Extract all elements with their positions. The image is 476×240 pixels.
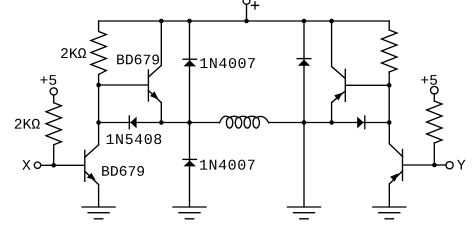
- svg-text:1N4007: 1N4007: [199, 56, 256, 73]
- diode D3 1N4007 unlabeled: [297, 21, 311, 123]
- svg-text:Y: Y: [457, 159, 466, 175]
- diode D4 1N5408: [129, 116, 136, 129]
- junction mid-T1e: [159, 120, 164, 125]
- supply terminal circle: [243, 0, 250, 4]
- svg-text:+5: +5: [420, 74, 438, 90]
- node Y terminal: [434, 164, 446, 166]
- svg-text:1N5408: 1N5408: [105, 132, 162, 149]
- svg-text:1N4007: 1N4007: [199, 158, 256, 175]
- ground GND3: [288, 207, 321, 219]
- inductor L1: [220, 116, 269, 128]
- junction rail-D1: [187, 19, 192, 24]
- node base junction T1: [96, 83, 101, 88]
- wire supply drop: [246, 4, 248, 21]
- wire mid line left: [99, 122, 220, 124]
- wire left column 85 to midline: [98, 85, 100, 123]
- resistor R3 right: [382, 21, 397, 123]
- junction mid-T3e: [329, 120, 334, 125]
- svg-text:+5: +5: [39, 74, 57, 90]
- ground GND4: [373, 207, 406, 219]
- junction mid-D1D2: [187, 120, 192, 125]
- diode D2 1N4007 bottom: [183, 123, 197, 208]
- svg-text:BD679: BD679: [116, 53, 160, 69]
- svg-text:BD679: BD679: [101, 165, 145, 181]
- node + label: [252, 2, 259, 9]
- ground GND1: [82, 207, 115, 219]
- wire top supply rail: [99, 20, 390, 22]
- resistor R1 2KOhm top-left: [91, 21, 106, 85]
- junction mid-D3: [302, 120, 307, 125]
- wire X to Q2 base: [41, 164, 85, 166]
- transistor Q1 BD679: [99, 21, 162, 123]
- junction mid-right: [387, 120, 392, 125]
- svg-text:2KΩ: 2KΩ: [60, 47, 87, 63]
- diode D1 1N4007 top: [183, 21, 197, 123]
- transistor Q3 PNP right side: [332, 21, 390, 123]
- wire mid column to ground: [303, 123, 305, 208]
- wire mid line right: [269, 122, 390, 124]
- ground GND2: [173, 207, 206, 219]
- junction rail-T1: [159, 19, 164, 24]
- junction rail-D3: [302, 19, 307, 24]
- transistor Q4 NPN right (Y): [389, 123, 434, 208]
- transistor Q2 BD679: [85, 123, 99, 208]
- svg-text:X: X: [22, 159, 31, 175]
- resistor R2 2KOhm left: [46, 88, 61, 166]
- junction Q3 base - R3: [387, 83, 392, 88]
- junction mid-left: [96, 120, 101, 125]
- junction X line: [51, 163, 56, 168]
- svg-text:2KΩ: 2KΩ: [14, 118, 41, 134]
- resistor R4 right +5: [427, 86, 442, 165]
- junction rail-supply: [244, 19, 249, 24]
- diode D5 right pointing: [357, 116, 365, 129]
- junction Y line: [432, 163, 437, 168]
- junction rail-T3: [329, 19, 334, 24]
